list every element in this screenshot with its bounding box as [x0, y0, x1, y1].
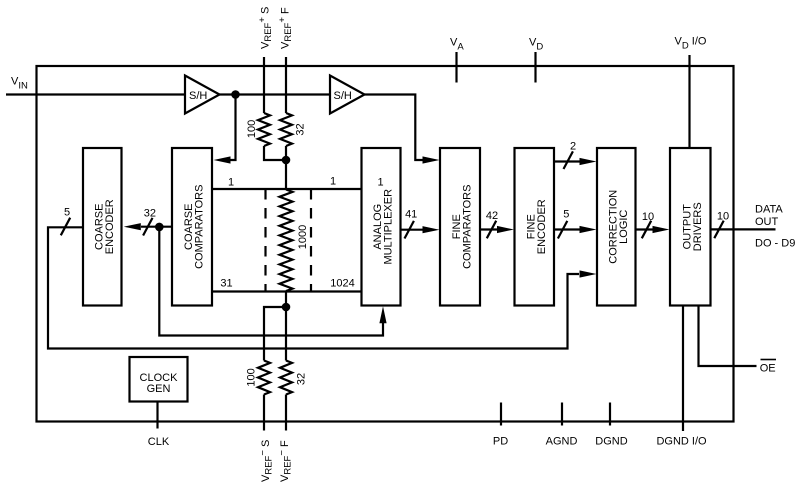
svg-text:31: 31 — [220, 278, 232, 290]
svg-text:S/H: S/H — [189, 90, 207, 102]
svg-text:DO - D9: DO - D9 — [755, 238, 795, 250]
svg-text:DGND I/O: DGND I/O — [656, 436, 707, 448]
svg-text:DATA: DATA — [755, 204, 783, 216]
svg-text:1: 1 — [377, 177, 383, 189]
svg-text:2: 2 — [570, 141, 576, 153]
svg-text:10: 10 — [642, 211, 654, 223]
svg-text:1: 1 — [330, 176, 336, 188]
svg-text:32: 32 — [144, 207, 156, 219]
svg-text:32: 32 — [296, 373, 308, 385]
svg-text:CLK: CLK — [148, 436, 170, 448]
svg-text:1000: 1000 — [297, 225, 309, 249]
svg-text:42: 42 — [486, 210, 498, 222]
svg-text:5: 5 — [563, 209, 569, 221]
svg-text:32: 32 — [295, 123, 307, 135]
svg-text:OE: OE — [760, 363, 776, 375]
svg-text:DGND: DGND — [595, 436, 627, 448]
svg-text:OUTPUTDRIVERS: OUTPUTDRIVERS — [681, 202, 704, 251]
svg-text:COARSEENCODER: COARSEENCODER — [93, 199, 116, 254]
svg-text:OUT: OUT — [755, 216, 779, 228]
svg-text:S/H: S/H — [334, 90, 352, 102]
svg-text:41: 41 — [405, 209, 417, 221]
svg-text:5: 5 — [64, 207, 70, 219]
svg-text:100: 100 — [246, 368, 258, 386]
svg-text:GEN: GEN — [147, 383, 171, 395]
svg-text:1024: 1024 — [330, 278, 354, 290]
svg-text:10: 10 — [717, 211, 729, 223]
svg-text:1: 1 — [228, 177, 234, 189]
svg-text:PD: PD — [493, 436, 508, 448]
svg-text:AGND: AGND — [546, 436, 578, 448]
svg-text:100: 100 — [246, 120, 258, 138]
